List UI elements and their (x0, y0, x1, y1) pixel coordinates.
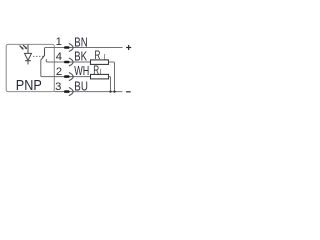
wire pin2 (WH) from switch NC contact (41, 60, 91, 77)
junction dot RL1/BU (113, 90, 115, 92)
light arrow 1 (20, 46, 24, 50)
connector plug pin3 (64, 88, 73, 96)
wire pin4 (BK) from switch NO contact to resistor (46, 59, 90, 62)
connector plug pin1 (64, 43, 73, 51)
photodiode D1 anode lead (27, 45, 29, 54)
svg-text:WH: WH (74, 63, 89, 78)
dotted link photodiode to switch (33, 55, 43, 57)
wire pin1 (BN) (45, 48, 123, 49)
resistor RL1 body (91, 60, 109, 65)
photodiode D1 cathode stub (27, 61, 29, 65)
plus terminal (126, 45, 131, 50)
wire RL2 to minus bus (109, 77, 111, 92)
svg-text:BK: BK (74, 49, 87, 64)
svg-text:PNP: PNP (16, 78, 42, 94)
svg-text:BN: BN (74, 34, 87, 49)
sensor body box (6, 44, 54, 91)
photodiode D1 cathode bar (25, 60, 31, 62)
wire pin3 (BU) (54, 91, 122, 93)
light arrow 2 (23, 45, 27, 49)
svg-text:3: 3 (55, 81, 61, 93)
svg-text:4: 4 (56, 51, 62, 63)
connector plug pin2 (64, 73, 73, 81)
minus terminal (126, 91, 131, 92)
photodiode D1 triangle (25, 53, 32, 60)
junction dot RL2/BU (109, 90, 111, 92)
switch S1 common lead from pin1 wire (44, 48, 46, 55)
wire RL1 to minus bus (109, 62, 115, 92)
svg-text:BU: BU (74, 78, 88, 93)
connector plug pin4 (64, 58, 73, 66)
svg-text:2: 2 (56, 66, 62, 78)
svg-text:1: 1 (56, 36, 62, 48)
resistor RL2 body (91, 74, 109, 79)
switch S1 arm (41, 55, 45, 60)
